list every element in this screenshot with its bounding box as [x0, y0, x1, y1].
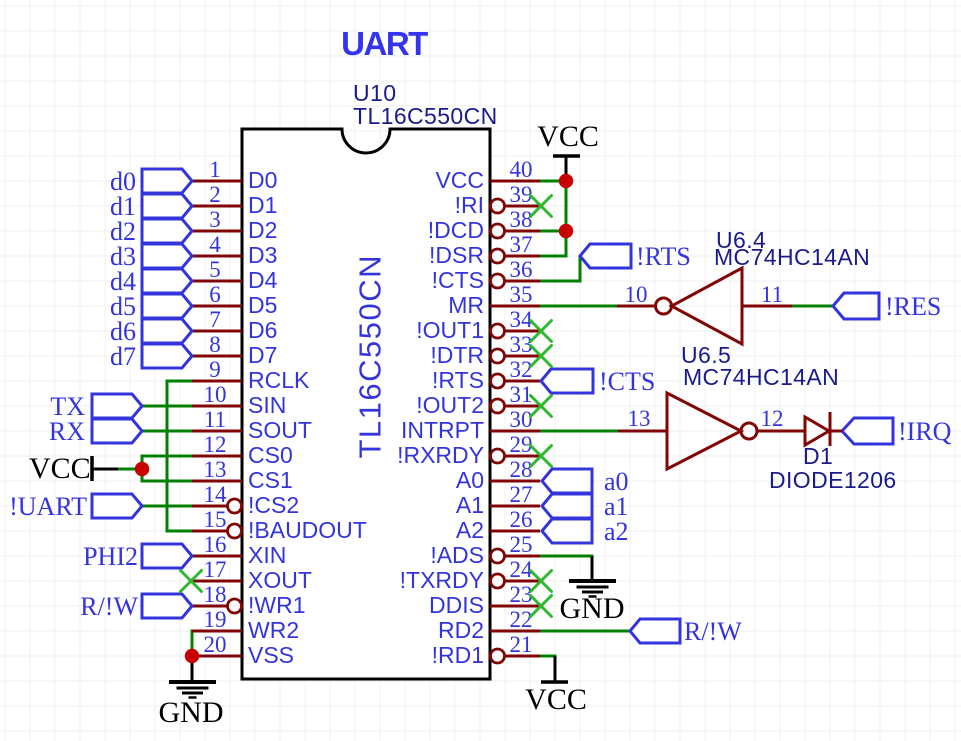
- svg-text:2: 2: [209, 182, 221, 207]
- svg-text:26: 26: [510, 507, 533, 532]
- svg-text:!DTR: !DTR: [430, 342, 484, 368]
- svg-text:11: 11: [204, 407, 226, 432]
- svg-text:!CS2: !CS2: [248, 492, 299, 518]
- svg-text:7: 7: [209, 307, 221, 332]
- svg-text:28: 28: [510, 457, 533, 482]
- svg-text:!DCD: !DCD: [428, 217, 484, 243]
- svg-text:17: 17: [204, 557, 227, 582]
- svg-text:31: 31: [510, 382, 533, 407]
- svg-text:TL16C550CN: TL16C550CN: [353, 254, 388, 459]
- svg-text:CS1: CS1: [248, 467, 293, 493]
- svg-text:VCC: VCC: [29, 452, 91, 485]
- svg-text:RCLK: RCLK: [248, 367, 310, 393]
- svg-text:33: 33: [510, 332, 533, 357]
- svg-text:D3: D3: [248, 242, 277, 268]
- svg-text:!BAUDOUT: !BAUDOUT: [248, 517, 367, 543]
- svg-text:!DSR: !DSR: [429, 242, 484, 268]
- svg-text:8: 8: [209, 332, 221, 357]
- svg-text:UART: UART: [341, 25, 428, 62]
- svg-text:25: 25: [510, 532, 533, 557]
- svg-text:A2: A2: [456, 517, 484, 543]
- svg-text:R/!W: R/!W: [80, 592, 138, 621]
- svg-text:VCC: VCC: [537, 120, 599, 153]
- svg-text:32: 32: [510, 357, 533, 382]
- svg-text:D1: D1: [803, 443, 833, 469]
- svg-text:!RTS: !RTS: [636, 242, 691, 271]
- svg-text:WR2: WR2: [248, 617, 299, 643]
- svg-text:3: 3: [209, 207, 221, 232]
- svg-text:13: 13: [204, 457, 227, 482]
- svg-text:!CTS: !CTS: [599, 367, 655, 396]
- svg-text:VCC: VCC: [435, 167, 484, 193]
- svg-text:PHI2: PHI2: [83, 542, 138, 571]
- svg-text:40: 40: [510, 157, 533, 182]
- svg-text:VSS: VSS: [248, 642, 294, 668]
- svg-text:14: 14: [204, 482, 228, 507]
- svg-text:6: 6: [209, 282, 221, 307]
- svg-text:MC74HC14AN: MC74HC14AN: [683, 364, 839, 390]
- svg-text:GND: GND: [560, 592, 625, 625]
- svg-text:MC74HC14AN: MC74HC14AN: [714, 244, 870, 270]
- svg-text:!TXRDY: !TXRDY: [400, 567, 484, 593]
- svg-text:10: 10: [625, 282, 648, 307]
- svg-text:XIN: XIN: [248, 542, 286, 568]
- svg-text:1: 1: [209, 157, 221, 182]
- svg-text:19: 19: [204, 607, 227, 632]
- svg-text:RX: RX: [49, 417, 85, 446]
- svg-text:!OUT1: !OUT1: [416, 317, 484, 343]
- svg-text:!IRQ: !IRQ: [898, 417, 952, 446]
- svg-text:!UART: !UART: [9, 492, 87, 521]
- svg-text:a2: a2: [604, 517, 629, 546]
- svg-text:TL16C550CN: TL16C550CN: [353, 103, 498, 129]
- svg-text:GND: GND: [159, 696, 224, 729]
- svg-text:!ADS: !ADS: [430, 542, 484, 568]
- svg-text:27: 27: [510, 482, 533, 507]
- svg-text:15: 15: [204, 507, 227, 532]
- svg-text:A1: A1: [456, 492, 484, 518]
- svg-text:!RXRDY: !RXRDY: [397, 442, 484, 468]
- svg-text:!RD1: !RD1: [432, 642, 484, 668]
- svg-text:20: 20: [204, 632, 227, 657]
- svg-text:12: 12: [204, 432, 227, 457]
- svg-text:12: 12: [761, 406, 784, 431]
- svg-text:!RI: !RI: [455, 192, 484, 218]
- svg-text:MR: MR: [448, 292, 484, 318]
- svg-text:5: 5: [209, 257, 221, 282]
- svg-text:30: 30: [510, 407, 533, 432]
- svg-text:D7: D7: [248, 342, 277, 368]
- svg-text:4: 4: [209, 232, 221, 257]
- svg-text:36: 36: [510, 257, 533, 282]
- svg-text:D1: D1: [248, 192, 277, 218]
- svg-text:22: 22: [510, 607, 533, 632]
- svg-text:35: 35: [510, 282, 533, 307]
- svg-text:SOUT: SOUT: [248, 417, 312, 443]
- svg-text:!OUT2: !OUT2: [416, 392, 484, 418]
- svg-text:!RTS: !RTS: [432, 367, 484, 393]
- svg-text:VCC: VCC: [525, 683, 587, 716]
- svg-text:13: 13: [628, 406, 651, 431]
- svg-text:D0: D0: [248, 167, 277, 193]
- svg-text:CS0: CS0: [248, 442, 293, 468]
- svg-text:38: 38: [510, 207, 533, 232]
- svg-text:!WR1: !WR1: [248, 592, 306, 618]
- svg-text:11: 11: [761, 282, 783, 307]
- svg-text:16: 16: [204, 532, 227, 557]
- svg-text:23: 23: [510, 582, 533, 607]
- svg-text:DIODE1206: DIODE1206: [769, 467, 897, 493]
- svg-text:37: 37: [510, 232, 533, 257]
- svg-text:D2: D2: [248, 217, 277, 243]
- svg-text:A0: A0: [456, 467, 484, 493]
- svg-text:R/!W: R/!W: [684, 617, 742, 646]
- svg-text:INTRPT: INTRPT: [401, 417, 484, 443]
- svg-text:XOUT: XOUT: [248, 567, 312, 593]
- svg-text:!CTS: !CTS: [432, 267, 484, 293]
- svg-text:21: 21: [510, 632, 533, 657]
- svg-text:29: 29: [510, 432, 533, 457]
- svg-text:d7: d7: [110, 342, 136, 371]
- svg-text:D4: D4: [248, 267, 278, 293]
- svg-text:DDIS: DDIS: [429, 592, 484, 618]
- svg-text:SIN: SIN: [248, 392, 286, 418]
- svg-text:18: 18: [204, 582, 227, 607]
- svg-text:9: 9: [209, 357, 221, 382]
- svg-text:39: 39: [510, 182, 533, 207]
- svg-text:D5: D5: [248, 292, 277, 318]
- svg-text:D6: D6: [248, 317, 277, 343]
- svg-text:10: 10: [204, 382, 227, 407]
- svg-text:!RES: !RES: [885, 292, 941, 321]
- svg-text:RD2: RD2: [438, 617, 484, 643]
